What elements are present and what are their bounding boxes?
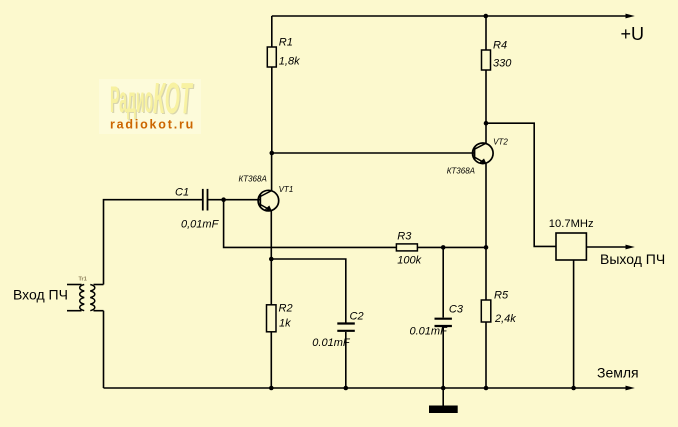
wire R4 bottom lead to VT2 collector: [485, 70, 487, 143]
node R3 VT2 emitter junction: [484, 245, 489, 250]
node VT1 emitter C2 junction: [269, 257, 274, 262]
svg-text:Выход ПЧ: Выход ПЧ: [600, 251, 665, 267]
svg-text:radiokot.ru: radiokot.ru: [110, 118, 195, 132]
node C2 ground: [344, 386, 349, 391]
wire VT1 emitter to C2: [271, 259, 346, 323]
node R3 C3 junction: [441, 245, 446, 250]
svg-text:+U: +U: [621, 24, 645, 44]
node C1 base junction: [221, 197, 226, 202]
node R5 ground: [484, 386, 489, 391]
wire R3 right lead: [417, 246, 486, 248]
arrow +U rail: [626, 14, 635, 19]
wire transformer primary bottom lead: [67, 310, 82, 312]
wire C1 right to VT1 base: [208, 199, 260, 201]
node C3 ground: [441, 386, 446, 391]
svg-text:1k: 1k: [279, 318, 291, 330]
transistor VT1: [239, 175, 294, 212]
resistor R4: [482, 40, 513, 71]
svg-text:Вход ПЧ: Вход ПЧ: [13, 287, 68, 303]
resistor R1: [267, 37, 300, 68]
svg-text:Радио: Радио: [110, 79, 153, 120]
wire top rail +U: [272, 15, 628, 17]
wire base line VT1 collector to VT2 base: [272, 152, 475, 154]
wire VT2 emitter down to R5: [485, 164, 487, 300]
svg-text:КОТ: КОТ: [153, 74, 193, 123]
wire ground stub: [442, 388, 444, 406]
wire R1 top lead: [271, 16, 273, 47]
svg-text:R1: R1: [279, 37, 293, 49]
arrow filter output: [626, 245, 635, 250]
svg-text:R4: R4: [493, 40, 507, 52]
wire input loop left vertical lower: [103, 311, 105, 388]
svg-text:100k: 100k: [397, 255, 421, 267]
ground: [429, 406, 458, 414]
capacitor C1: [175, 187, 220, 231]
svg-text:0.01mF: 0.01mF: [312, 337, 351, 349]
capacitor C2: [312, 311, 363, 350]
wire R5 bottom lead: [485, 322, 487, 388]
wire VT1 emitter down: [270, 211, 272, 305]
node R2 ground: [269, 386, 274, 391]
wire C2 bottom lead: [345, 332, 347, 388]
node top rail R4: [484, 14, 489, 19]
wire VT2 collector to filter: [486, 123, 556, 246]
wire VT1 collector: [271, 153, 273, 191]
transformer Tr1: [80, 285, 95, 311]
wire transformer secondary top lead: [94, 284, 104, 286]
svg-text:2,4k: 2,4k: [494, 313, 516, 325]
resistor R3: [396, 231, 421, 267]
svg-text:R5: R5: [494, 290, 509, 302]
svg-text:10.7MHz: 10.7MHz: [549, 218, 594, 230]
wire R2 bottom lead: [270, 332, 272, 388]
node R1 collector junction: [270, 151, 275, 156]
resistor R2: [267, 303, 293, 332]
svg-text:330: 330: [493, 58, 512, 70]
filter Z1 10.7MHz: [549, 218, 594, 260]
node filter ground: [571, 386, 576, 391]
wire ground rail: [104, 387, 629, 389]
wire R4 top lead: [485, 16, 487, 50]
node junction dots: [221, 14, 576, 391]
svg-text:C3: C3: [449, 304, 464, 316]
wire C3 top lead: [442, 247, 444, 317]
svg-text:0.01mF: 0.01mF: [410, 326, 449, 338]
svg-text:КТ368А: КТ368А: [239, 175, 267, 184]
capacitor C3: [410, 304, 464, 338]
svg-text:0,01mF: 0,01mF: [181, 219, 220, 231]
svg-text:C2: C2: [350, 311, 364, 323]
wire filter bottom lead: [573, 260, 575, 388]
wire filter output: [586, 246, 628, 248]
svg-text:VT2: VT2: [493, 137, 508, 146]
svg-text:Земля: Земля: [597, 365, 639, 381]
wire R1 bottom lead to node A: [271, 67, 273, 153]
node VT2 collector junction: [484, 121, 489, 126]
logo radiokot watermark: [99, 74, 201, 134]
arrow ground rail: [626, 386, 635, 391]
wire transformer secondary bottom lead: [94, 310, 104, 312]
wire C1 node down to R3: [224, 200, 397, 248]
resistor R5: [481, 290, 516, 326]
svg-text:1,8k: 1,8k: [279, 56, 300, 68]
wire C3 bottom lead: [442, 328, 444, 389]
svg-text:C1: C1: [175, 187, 189, 199]
transistor VT2: [447, 137, 509, 175]
svg-text:R3: R3: [397, 231, 412, 243]
wire C1 left to input loop: [104, 200, 203, 285]
svg-text:R2: R2: [279, 303, 293, 315]
svg-text:Tr1: Tr1: [79, 277, 87, 283]
svg-text:VT1: VT1: [279, 185, 294, 194]
svg-text:КТ368А: КТ368А: [447, 166, 475, 175]
wire transformer primary top lead: [67, 284, 82, 286]
